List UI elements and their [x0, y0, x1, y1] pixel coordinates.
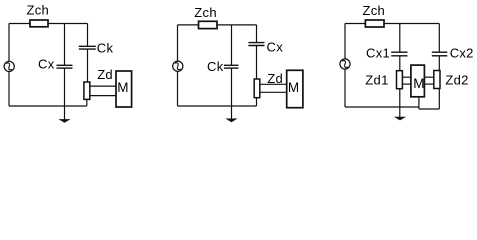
- ground (circuit3): [394, 117, 406, 121]
- wire: circuit1 Ck branch lower: [87, 49, 89, 82]
- wire: circuit2 Ck branch lower: [231, 68, 233, 119]
- impedance Zd (circuit2): [254, 79, 260, 98]
- svg-text:Zd1: Zd1: [365, 72, 388, 87]
- capacitor Cx: [57, 65, 73, 68]
- wire: circuit3 Cx2 branch lower: [438, 56, 440, 71]
- svg-text:Ck: Ck: [207, 59, 224, 74]
- capacitor Cx1: [391, 52, 407, 56]
- svg-text:M: M: [117, 80, 129, 95]
- svg-text:M: M: [413, 76, 425, 91]
- wire: circuit2 bottom: [178, 105, 257, 107]
- impedance Zd1: [397, 71, 403, 89]
- svg-text:Cx1: Cx1: [366, 45, 390, 60]
- resistor Zch (circuit1): [30, 20, 48, 27]
- wire: circuit2 Cx branch upper: [256, 25, 258, 43]
- wire: circuit2 Ck branch upper: [231, 25, 233, 65]
- wire: circuit1 bottom: [9, 105, 87, 107]
- wire: circuit3 top: [345, 23, 439, 25]
- wire: circuit3 Zd1 to motor lower: [402, 83, 411, 85]
- wire: circuit2 Cx branch lower: [256, 46, 258, 80]
- svg-text:M: M: [288, 80, 300, 95]
- wire: circuit2 Zd bottom link: [256, 98, 258, 106]
- wire: circuit1 Zd bottom link: [86, 99, 88, 106]
- wire: circuit2 top: [178, 24, 257, 26]
- capacitor Ck (circuit2): [224, 65, 239, 68]
- wire: circuit3 bottom right segment: [419, 108, 439, 110]
- svg-text:Cx2: Cx2: [450, 45, 474, 60]
- svg-text:Zd: Zd: [267, 71, 283, 86]
- impedance Zd (circuit1): [84, 82, 90, 99]
- motor M (circuit2): [287, 70, 303, 107]
- capacitor Cx2: [432, 52, 448, 56]
- wire: circuit3 motor to Zd2 lower: [424, 83, 433, 85]
- svg-text:Zch: Zch: [27, 3, 50, 18]
- motor M (circuit1): [116, 71, 132, 107]
- wire: circuit3 Cx1 branch upper: [399, 24, 401, 53]
- wire: circuit3 bottom: [345, 106, 419, 108]
- wire: circuit1 Zd to motor upper: [90, 85, 116, 87]
- wire: circuit1 Cx branch lower: [64, 68, 66, 119]
- AC source G3: [340, 59, 350, 69]
- AC source G2: [173, 61, 183, 71]
- svg-text:Cx: Cx: [38, 57, 55, 72]
- wire: circuit2 Zd to motor lower: [260, 91, 287, 93]
- wire: circuit2 Zd to motor upper: [260, 83, 287, 85]
- wire: circuit1 Cx branch upper: [64, 24, 66, 66]
- wire: circuit3 Zd2 bottom link: [438, 89, 440, 110]
- svg-text:Zd: Zd: [97, 67, 113, 82]
- wire: circuit3 Cx2 branch upper: [438, 24, 440, 53]
- resistor Zch (circuit3): [365, 20, 384, 27]
- wire: circuit1 Zd to motor lower: [90, 95, 116, 97]
- wire: circuit1 top: [9, 23, 88, 25]
- svg-text:Zch: Zch: [194, 5, 217, 20]
- svg-text:Zch: Zch: [363, 3, 386, 18]
- capacitor Cx (circuit2): [248, 43, 264, 46]
- svg-text:Cx: Cx: [267, 39, 284, 54]
- wire: circuit1 left: [8, 24, 10, 107]
- wire: circuit3 Cx1 branch lower: [399, 56, 401, 71]
- capacitor Ck: [79, 46, 96, 49]
- wire: circuit3 motor to Zd2 upper: [424, 76, 433, 78]
- impedance Zd2: [434, 71, 440, 89]
- wire: circuit3 ground branch: [399, 89, 401, 118]
- wire: circuit3 left: [344, 24, 346, 108]
- motor M (circuit3): [411, 65, 425, 97]
- AC source G1: [4, 61, 14, 71]
- svg-text:Ck: Ck: [97, 40, 114, 55]
- svg-text:Zd2: Zd2: [445, 72, 468, 87]
- wire: circuit2 left: [177, 25, 179, 106]
- ground (circuit1): [58, 119, 70, 123]
- ground (circuit2): [225, 119, 237, 123]
- wire: circuit3 Zd1 to motor upper: [402, 76, 411, 78]
- wire: circuit1 Ck branch upper: [87, 24, 89, 47]
- wire: circuit3 motor bottom stub: [418, 97, 420, 109]
- resistor Zch (circuit2): [199, 21, 218, 28]
